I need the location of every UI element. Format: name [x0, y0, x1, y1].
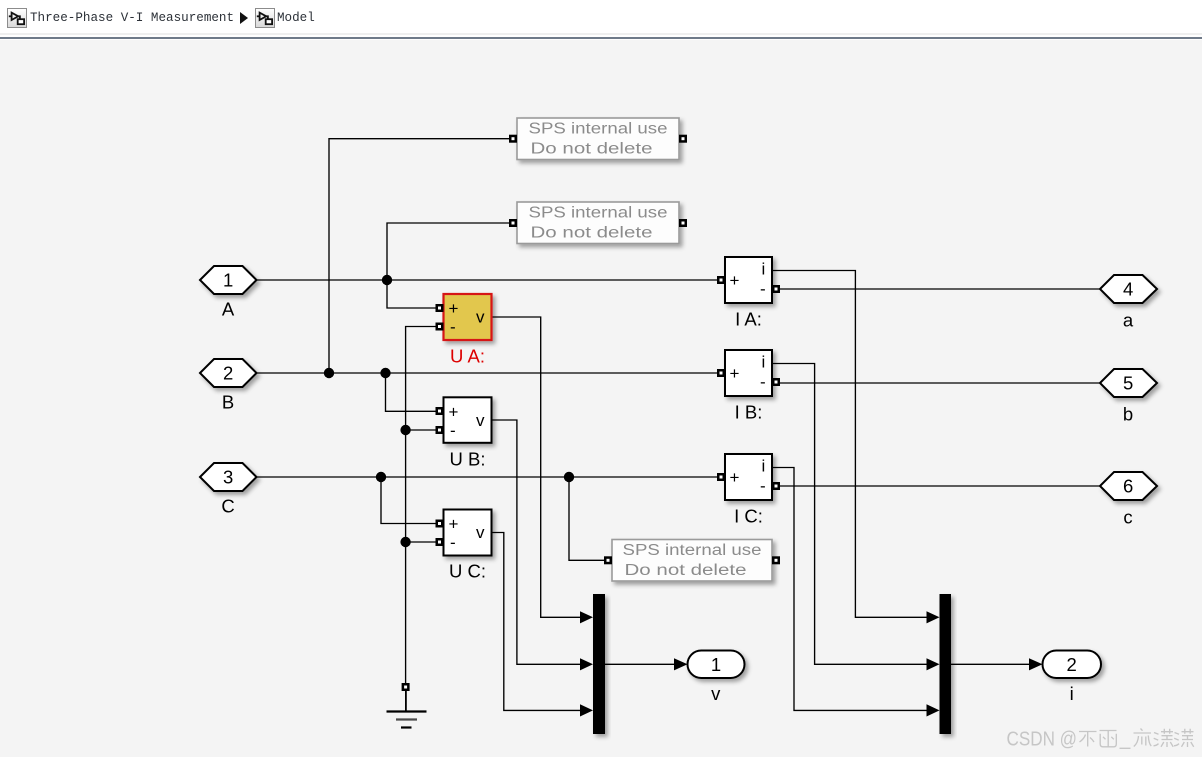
svg-text:U B:: U B: — [450, 448, 486, 469]
svg-text:C: C — [221, 496, 234, 517]
wire A to SPS2 input and U A + — [387, 223, 509, 308]
svg-text:Do not delete: Do not delete — [531, 140, 653, 157]
wire minus bus to U B - — [406, 429, 436, 431]
svg-text:v: v — [476, 411, 485, 430]
svg-text:+: + — [449, 515, 459, 534]
svg-text:I B:: I B: — [735, 402, 763, 423]
label B — [222, 392, 234, 413]
label A — [222, 299, 235, 320]
svg-text:SPS internal use: SPS internal use — [529, 205, 668, 222]
breadcrumb bar — [0, 0, 1202, 33]
label b — [1123, 403, 1133, 424]
label I A: — [735, 309, 762, 330]
svg-text:6: 6 — [1123, 476, 1133, 497]
wire B to SPS1 input — [329, 139, 509, 373]
wire I A i output to Mux2 input 1 — [772, 271, 940, 624]
block I A (current measurement) — [717, 257, 780, 303]
block I B (current measurement) — [717, 350, 780, 396]
label U A: — [450, 346, 485, 367]
svg-text:2: 2 — [1067, 654, 1077, 675]
wire Mux1 output to outport v — [605, 658, 688, 670]
block U A (voltage measurement, highlighted) — [436, 294, 492, 340]
svg-text:5: 5 — [1123, 373, 1133, 394]
svg-text:+: + — [449, 402, 459, 421]
svg-text:v: v — [711, 683, 721, 704]
outport 4 hexagon — [1100, 275, 1157, 303]
outport i oval — [1043, 651, 1102, 679]
svg-text:-: - — [450, 318, 456, 337]
ground — [387, 683, 427, 728]
breadcrumb text: Three-Phase V-I Measurement — [30, 11, 234, 25]
svg-text:-: - — [760, 373, 766, 392]
svg-text:1: 1 — [711, 654, 721, 675]
svg-text:-: - — [760, 477, 766, 496]
node junction C / x569 — [564, 472, 574, 482]
node junction A / x387 — [382, 275, 392, 285]
block U C (voltage measurement) — [436, 510, 492, 556]
inport 2 hexagon — [200, 359, 257, 387]
svg-text:-: - — [450, 533, 456, 552]
block SPS3 (SPS internal use) — [604, 540, 780, 582]
svg-text:+: + — [449, 299, 459, 318]
wire minus bus to U C - — [406, 541, 436, 543]
outport v oval — [688, 651, 745, 679]
watermark CJK glyphs — [1079, 729, 1194, 749]
svg-text:SPS internal use: SPS internal use — [623, 542, 762, 559]
wire U A v output to Mux1 input 1 — [492, 317, 594, 623]
svg-text:i: i — [762, 260, 766, 279]
label I B: — [735, 402, 763, 423]
svg-text:I A:: I A: — [735, 309, 762, 330]
svg-text:A: A — [222, 299, 235, 320]
wire phase B horizontal — [257, 372, 718, 374]
inport 3 hexagon — [200, 463, 257, 491]
wire minus bus U A- to ground — [406, 327, 436, 684]
label C — [221, 496, 234, 517]
svg-text:-: - — [450, 421, 456, 440]
block U B (voltage measurement) — [436, 397, 492, 443]
svg-text:+: + — [730, 364, 740, 383]
label a — [1123, 309, 1134, 330]
svg-text:U A:: U A: — [450, 346, 485, 367]
label U B: — [450, 448, 486, 469]
label I C: — [734, 506, 763, 527]
label c — [1123, 506, 1132, 527]
wire phase A horizontal — [257, 279, 718, 281]
svg-text:c: c — [1123, 506, 1132, 527]
block SPS1 (SPS internal use) — [509, 118, 687, 160]
wire I C i output to Mux2 input 3 — [772, 468, 940, 717]
svg-text:B: B — [222, 392, 234, 413]
wire U B v output to Mux1 input 2 — [491, 420, 593, 670]
block Mux1 — [593, 594, 605, 734]
svg-text:+: + — [730, 468, 740, 487]
wire B to U B + — [386, 373, 436, 411]
node junction B / x385.5 — [380, 368, 390, 378]
node junction B / x329 — [324, 368, 334, 378]
breadcrumb icon 1 (subsystem) — [7, 8, 27, 28]
breadcrumb text: Model — [277, 11, 315, 25]
inport 1 hexagon — [200, 266, 257, 294]
wire C to SPS3 input — [569, 477, 604, 560]
svg-text:i: i — [1070, 683, 1074, 704]
block SPS2 (SPS internal use) — [509, 202, 687, 244]
svg-text:I C:: I C: — [734, 506, 763, 527]
wire Mux2 output to outport i — [951, 658, 1043, 670]
svg-text:2: 2 — [223, 363, 233, 384]
outport 5 hexagon — [1100, 369, 1157, 397]
svg-text:1: 1 — [223, 270, 233, 291]
svg-text:U C:: U C: — [449, 561, 486, 582]
node junction C / x381 — [376, 472, 386, 482]
svg-text:-: - — [760, 280, 766, 299]
node junction minus bus / U C — [400, 537, 410, 547]
label U C: — [449, 561, 486, 582]
svg-text:a: a — [1123, 309, 1134, 330]
wire I C - to port 6 — [780, 485, 1100, 487]
wire phase C horizontal — [257, 476, 718, 478]
svg-text:3: 3 — [223, 467, 233, 488]
svg-text:v: v — [476, 523, 485, 542]
wire C to U C + — [381, 477, 436, 524]
breadcrumb icon 2 (subsystem) — [255, 8, 275, 28]
svg-text:4: 4 — [1123, 279, 1133, 300]
svg-text:SPS internal use: SPS internal use — [529, 121, 668, 138]
svg-text:+: + — [730, 271, 740, 290]
wire I B - to port 5 — [780, 382, 1100, 384]
svg-text:i: i — [762, 353, 766, 372]
wire U C v output to Mux1 input 3 — [491, 533, 593, 717]
svg-text:b: b — [1123, 403, 1133, 424]
block Mux2 — [940, 594, 952, 734]
svg-text:CSDN @: CSDN @ — [1007, 728, 1078, 750]
node junction minus bus / U B — [400, 425, 410, 435]
label v — [711, 683, 721, 704]
outport 6 hexagon — [1100, 472, 1157, 500]
block I C (current measurement) — [717, 454, 780, 500]
breadcrumb separator arrow — [239, 12, 249, 24]
svg-text:v: v — [476, 308, 485, 327]
wire I A - to port 4 — [780, 288, 1100, 290]
svg-text:i: i — [762, 457, 766, 476]
wire I B i output to Mux2 input 2 — [772, 364, 940, 671]
label i — [1070, 683, 1074, 704]
svg-text:Do not delete: Do not delete — [625, 562, 747, 579]
svg-text:Do not delete: Do not delete — [531, 224, 653, 241]
